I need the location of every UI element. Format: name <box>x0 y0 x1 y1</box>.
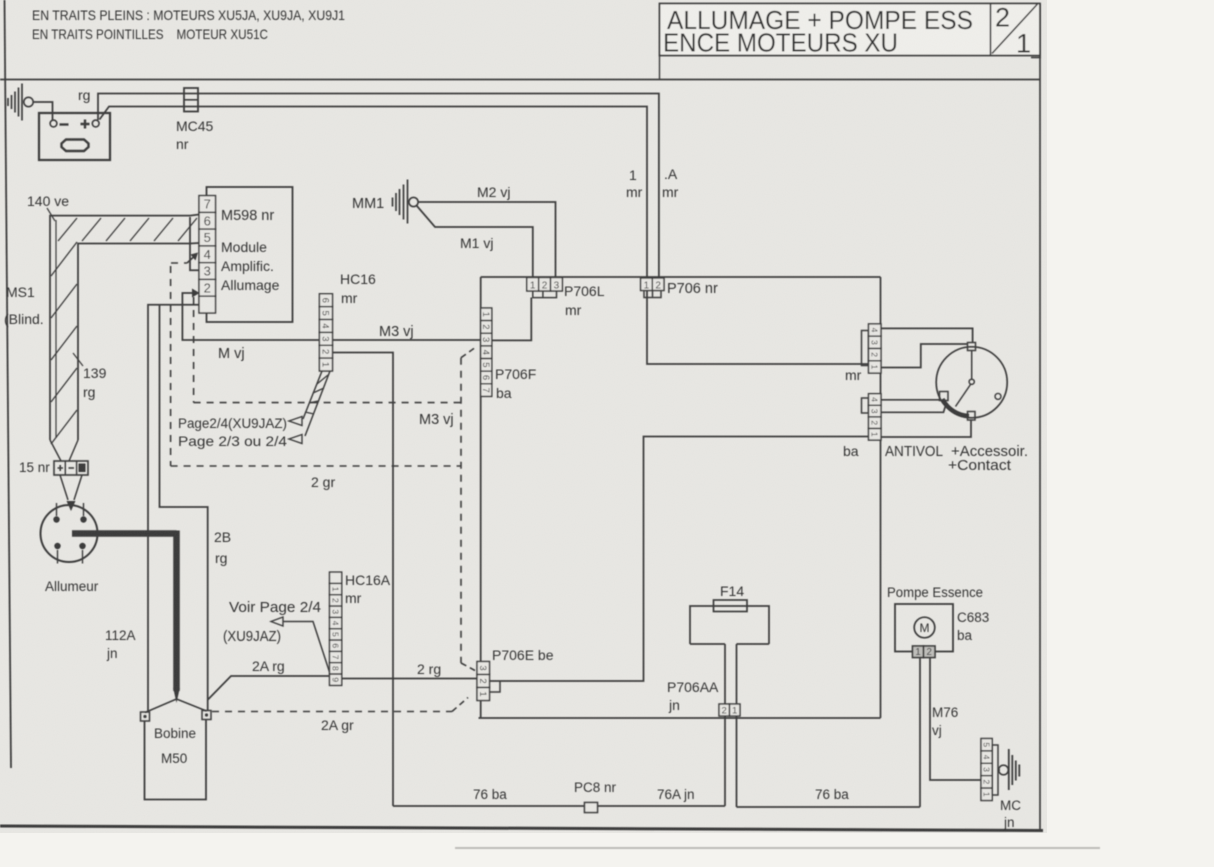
wire antivol second feed <box>881 344 968 368</box>
wire 2 rg HC16A to P706E <box>342 678 477 680</box>
shielded cable MS1 hatch vertical <box>51 242 77 276</box>
fuse loop staple <box>690 606 769 644</box>
ignition switch bottom pin <box>968 412 976 421</box>
wire 2B rg to coil plus <box>160 305 208 711</box>
connector HC16A <box>330 572 342 583</box>
shielded cable MS1 hatch horizontal <box>58 218 77 241</box>
fuel pump box <box>895 604 953 652</box>
ignition switch left pin <box>940 392 949 401</box>
antivol connector mr bracket <box>862 331 869 366</box>
fuel pump motor <box>914 617 935 638</box>
shielded cable MS1 outer <box>50 216 190 440</box>
wire P706 pin1 to antivol <box>647 291 869 365</box>
harness box top edge <box>481 276 881 278</box>
voir page arrow <box>271 617 283 626</box>
dashed diagonal to P706E pin3 <box>461 663 475 671</box>
wire fuse left leg <box>724 644 726 806</box>
funnel to distributor <box>60 475 82 500</box>
dashed wire module pin4 <box>171 262 187 264</box>
wire P706E to antivol ba (inner rectangle) <box>490 437 869 682</box>
dashed wire 2A gr <box>212 711 452 713</box>
connector P706F <box>481 308 492 321</box>
wire P706L pin1 to P706F pin3 <box>492 298 532 341</box>
bottom faint line <box>455 847 1100 849</box>
harness box right edge <box>880 277 882 718</box>
connector PC8 <box>585 803 598 813</box>
connector P706L <box>527 278 539 292</box>
dashed vertical A <box>170 266 172 466</box>
shielded cable MS1 conductor <box>55 220 57 438</box>
wire 139 rg to module pin 5 <box>190 242 199 245</box>
ignition switch spoke top <box>971 351 973 380</box>
title box <box>660 4 1041 56</box>
bottom border <box>0 826 1043 831</box>
connector MC <box>981 739 992 751</box>
dashed vertical C <box>460 358 462 663</box>
shielded cable MS1 inner <box>78 244 190 441</box>
right border <box>1039 4 1041 831</box>
ignition switch circle <box>936 347 1007 418</box>
wire 140 ve to module pin 6 <box>190 215 199 216</box>
border left <box>5 0 12 768</box>
wire 76 ba left segment <box>393 805 725 807</box>
page arrow 1 <box>289 417 302 426</box>
wire shield drop to module pin 3 <box>190 217 199 270</box>
top separator line <box>0 79 1040 81</box>
wire M76 vj pump pin2 to MC <box>930 658 981 781</box>
wire pump pin1 to 76 ba <box>919 658 921 808</box>
HT cable thick <box>72 530 177 537</box>
ignition switch top pin <box>968 343 976 351</box>
connector MC bracket <box>992 745 998 795</box>
connector 15 nr <box>54 461 88 475</box>
module M598 box <box>207 187 293 322</box>
ignition switch right contact <box>995 393 1001 399</box>
dashed diagonal to P706F pin4 <box>461 347 476 358</box>
cable end funnel <box>50 440 78 461</box>
ignition switch center <box>969 379 974 384</box>
wire antivol top feed <box>881 328 973 342</box>
ground MC <box>998 769 1000 771</box>
connector MC45 <box>184 88 198 112</box>
wire 112A jn module pin1 to coil <box>148 305 199 712</box>
ignition rotor arc <box>943 399 970 416</box>
ground symbol battery <box>8 84 22 121</box>
dashed wire 2 gr <box>171 465 461 467</box>
wire ground to battery minus <box>33 102 52 120</box>
antivol connector mr <box>869 324 882 336</box>
thick bar ba to left pin <box>881 399 940 401</box>
wire HC16 pin2 to 76 ba bus <box>333 353 394 807</box>
harness box left edge <box>480 277 482 718</box>
title box diagonal <box>992 4 1038 54</box>
antivol connector ba <box>869 394 882 406</box>
shielded link HC16 to page arrows <box>303 371 330 436</box>
coil terminal right <box>202 711 211 720</box>
dashed wire M3 vj <box>194 402 461 404</box>
title box divider <box>990 4 992 56</box>
harness box bottom edge <box>479 717 881 719</box>
ignition switch spoke diagonal <box>956 385 971 407</box>
connector P706AA <box>719 704 730 716</box>
wire bottom pin to harness <box>881 420 971 437</box>
dashed vertical B <box>193 297 195 403</box>
fuel pump connector C683 <box>913 646 924 658</box>
wire M2 vj <box>418 202 556 278</box>
wire fuse right leg <box>736 644 738 807</box>
wire P706E pin2 loop <box>490 682 501 693</box>
wire M vj module pin2 to HC16 <box>182 293 480 340</box>
antivol connector ba bracket <box>862 398 869 413</box>
connector P706E <box>477 662 490 675</box>
wire battery plus to MC45 upper (rg) <box>98 94 659 279</box>
fuse F14 <box>714 600 748 612</box>
connector HC16 <box>319 294 332 307</box>
coil terminal left <box>141 712 150 721</box>
connector P706 <box>641 278 653 291</box>
battery M <box>39 113 110 160</box>
wire 2A rg coil to HC16A <box>208 676 330 700</box>
wire HT to coil terminals <box>145 699 207 713</box>
wire M1 vj <box>417 206 533 279</box>
title corner tick <box>1031 57 1041 59</box>
module M598 pin stack <box>199 196 216 213</box>
wire 76 ba right segment <box>737 806 921 808</box>
distributor Allumeur <box>41 505 98 562</box>
wire battery plus to MC45 lower <box>100 107 648 279</box>
coil Bobine M50 box <box>145 720 207 800</box>
page arrow 2 <box>289 435 302 444</box>
